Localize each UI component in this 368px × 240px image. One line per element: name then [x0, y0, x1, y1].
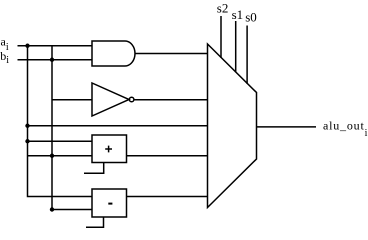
- svg-text:alu_outi: alu_outi: [323, 118, 368, 139]
- svg-text:s0: s0: [245, 10, 257, 25]
- svg-text:s1: s1: [232, 7, 244, 22]
- svg-text:s2: s2: [217, 1, 229, 16]
